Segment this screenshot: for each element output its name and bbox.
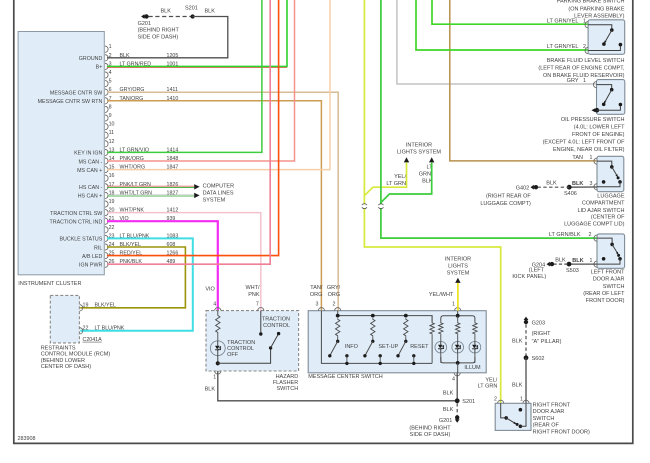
svg-text:4: 4 [213, 302, 216, 308]
wire RED/YEL pin25 [107, 0, 279, 256]
svg-text:G402: G402 [516, 185, 529, 191]
svg-text:G201: G201 [138, 21, 151, 27]
brake fluid level switch box [588, 20, 625, 55]
RCM pin 19 bracket [80, 305, 83, 311]
wire GRY/ORG pin6 [107, 92, 338, 311]
arrow computer data lines 2 [194, 193, 199, 198]
svg-text:3: 3 [590, 181, 593, 187]
svg-text:LUGGAGE COMPT LID): LUGGAGE COMPT LID) [564, 222, 625, 228]
svg-text:BLK: BLK [512, 382, 523, 388]
RFD blade contact dot [519, 425, 523, 429]
MCS resistor INFO [336, 318, 340, 337]
svg-text:MESSAGE CNTR SW RTN: MESSAGE CNTR SW RTN [38, 99, 103, 105]
svg-text:MS CAN +: MS CAN + [77, 168, 102, 174]
svg-text:1: 1 [213, 375, 216, 381]
arrow interior lights 3 [455, 278, 460, 283]
svg-text:(BEHIND RIGHT: (BEHIND RIGHT [138, 28, 180, 34]
svg-text:LEFT FRONT: LEFT FRONT [591, 270, 625, 276]
svg-text:CONTROL MODULE (RCM): CONTROL MODULE (RCM) [41, 352, 111, 358]
junction dot traction [216, 361, 220, 365]
wire LT GRN/BLK branch [381, 162, 432, 202]
svg-text:1: 1 [590, 155, 593, 161]
connector hop green [378, 204, 383, 208]
svg-text:BLK: BLK [572, 258, 583, 264]
MCS illum bottom junction [456, 361, 460, 365]
svg-text:(EXCEPT 4.0L: LEFT FRONT OF: (EXCEPT 4.0L: LEFT FRONT OF [543, 140, 626, 146]
svg-text:MS CAN -: MS CAN - [78, 159, 102, 165]
svg-text:MESSAGE CNTR SW: MESSAGE CNTR SW [50, 91, 102, 97]
traction LED lead to junction [217, 356, 219, 364]
svg-text:SIDE OF DASH): SIDE OF DASH) [138, 34, 179, 40]
svg-text:RESET: RESET [410, 344, 429, 350]
svg-text:MESSAGE CENTER SWITCH: MESSAGE CENTER SWITCH [308, 374, 383, 380]
LFD pin2 contact [597, 238, 612, 244]
MCS illum LED x457.7 [452, 341, 464, 353]
right front door switch box [495, 403, 531, 430]
wire GRY [397, 0, 597, 84]
MCS SET-UP lead [372, 337, 374, 342]
svg-text:SWITCH: SWITCH [276, 386, 298, 392]
svg-text:CENTER OF DASH): CENTER OF DASH) [41, 364, 92, 370]
svg-text:12: 12 [109, 139, 115, 145]
svg-text:5: 5 [109, 79, 112, 85]
splice S201 bottom [455, 398, 460, 403]
wire PNK/LT GRN pin17 [107, 185, 194, 187]
svg-text:1: 1 [583, 78, 586, 84]
svg-text:HS CAN -: HS CAN - [79, 185, 102, 191]
svg-text:HS CAN +: HS CAN + [78, 194, 103, 200]
LUG blade contact dot [618, 180, 622, 184]
MCS pin 3 bracket [318, 308, 324, 311]
MCS pin 2 bracket [335, 308, 341, 311]
BFS blade [604, 30, 612, 43]
MCS illum lead x474.9 [474, 335, 476, 342]
wire PNK/BLK pin26 [107, 0, 270, 264]
wire LT BLU/PNK pin23 [80, 238, 193, 330]
MCS INFO lead [337, 337, 339, 342]
svg-text:RIL: RIL [94, 245, 102, 251]
splice S201 (top) [191, 14, 195, 18]
BFS pin 2 bracket [585, 47, 588, 53]
ground G203 [524, 320, 528, 324]
BFS pin1 contact [588, 25, 612, 30]
svg-text:VIO: VIO [205, 286, 215, 292]
RFD pin2 contact [501, 403, 507, 418]
svg-text:TRACTION CTRL IND: TRACTION CTRL IND [50, 220, 103, 226]
svg-text:GRY/: GRY/ [327, 285, 341, 291]
svg-text:GROUND: GROUND [79, 56, 103, 62]
MCS illum resistor x474.9 [473, 322, 477, 335]
pin 7 bracket [258, 308, 264, 311]
svg-text:BLK: BLK [546, 180, 557, 186]
splice S406 [567, 185, 572, 190]
MCS RESET top contact dot [404, 340, 407, 343]
LUG pin1 contact [597, 161, 612, 167]
wire LT GRN/RED pin3 [107, 0, 287, 66]
svg-text:YEL/: YEL/ [394, 174, 406, 180]
MCS pin4 lead [457, 363, 459, 373]
svg-text:SWITCH: SWITCH [533, 416, 555, 422]
LFD floating contact [602, 257, 606, 261]
wire LT GRN/YEL pin1 [432, 0, 588, 24]
svg-text:1: 1 [452, 302, 455, 308]
svg-text:BLK: BLK [443, 391, 454, 397]
MCS top bus junction u3 [404, 314, 408, 318]
splice S503 [567, 262, 572, 267]
svg-text:LT GRN: LT GRN [386, 181, 406, 187]
OPS case ground [595, 108, 600, 113]
svg-text:BUCKLE STATUS: BUCKLE STATUS [60, 237, 103, 243]
RFD pin1 contact [520, 403, 526, 426]
svg-text:22: 22 [109, 225, 115, 231]
svg-text:283908: 283908 [18, 436, 36, 442]
svg-text:BLK: BLK [555, 257, 566, 263]
svg-text:SET-UP: SET-UP [378, 344, 398, 350]
svg-text:22: 22 [83, 326, 89, 332]
svg-text:ORG: ORG [328, 292, 341, 298]
svg-text:S503: S503 [566, 268, 579, 274]
wire PNK/ORG pin14 [107, 0, 295, 161]
wire LT GRN/YEL pin2 [416, 0, 588, 50]
hazard flasher switch box [206, 311, 299, 371]
MCS SET-UP blade tip dot [363, 354, 366, 357]
svg-text:INTERIOR: INTERIOR [445, 256, 471, 262]
svg-text:(BEHIND LOWER: (BEHIND LOWER [41, 358, 85, 364]
MCS illum resistor x440.8 [439, 322, 443, 335]
MCS illum lead x440.8 [440, 335, 442, 342]
MCS illum lead x457.7 [457, 335, 459, 342]
svg-text:INSTRUMENT CLUSTER: INSTRUMENT CLUSTER [18, 281, 81, 287]
arrow computer data lines 1 [194, 184, 199, 189]
wire BLK dashed G402 to S406 [538, 186, 570, 188]
wire WHT/ORG pin15 [107, 0, 330, 170]
svg-text:LID AJAR SWITCH: LID AJAR SWITCH [577, 208, 624, 214]
svg-text:PNK/LT GRN: PNK/LT GRN [120, 182, 151, 188]
LFD blade contact dot [618, 257, 622, 261]
svg-text:DOOR AJAR: DOOR AJAR [533, 409, 565, 415]
svg-text:"A" PILLAR): "A" PILLAR) [532, 339, 562, 345]
svg-text:2: 2 [588, 232, 591, 238]
wire YEL/LT GRN [364, 0, 500, 403]
MCS SET-UP right contact [379, 354, 382, 357]
LUG pin 1 bracket [594, 158, 597, 164]
svg-text:RESTRAINTS: RESTRAINTS [41, 346, 76, 352]
svg-text:19: 19 [109, 199, 115, 205]
svg-text:LT GRN/YEL: LT GRN/YEL [547, 18, 579, 24]
wire BLK S602 to RFD pin1 [525, 358, 527, 404]
svg-text:LIGHTS: LIGHTS [448, 263, 468, 269]
svg-text:IGN PWR: IGN PWR [79, 263, 102, 269]
wire LT GRN/BLK [381, 0, 597, 238]
MCS INFO blade tip dot [328, 354, 331, 357]
svg-text:S201: S201 [462, 399, 475, 405]
wire BLK MCS pin4 to S201 [456, 373, 458, 401]
svg-text:BLK: BLK [572, 181, 583, 187]
connector hop chartreuse [362, 204, 367, 208]
svg-text:(ON PARKING BRAKE: (ON PARKING BRAKE [568, 6, 624, 12]
MCS pin3 lead to bottom bus [321, 311, 432, 364]
message center switch box [308, 311, 486, 373]
wire LT GRN/RED red stripe [107, 67, 287, 69]
svg-text:BLK: BLK [161, 9, 172, 15]
svg-text:LUGGAGE COMPT): LUGGAGE COMPT) [480, 201, 531, 207]
svg-text:19: 19 [83, 303, 89, 309]
wire BLK dashed G204 to S503 [554, 263, 570, 265]
svg-text:4: 4 [109, 70, 112, 76]
BFS pin2 contact [588, 45, 620, 51]
svg-text:BRAKE FLUID LEVEL SWITCH: BRAKE FLUID LEVEL SWITCH [547, 58, 625, 64]
svg-text:INTERIOR: INTERIOR [406, 143, 432, 149]
MCS SET-UP top contact dot [371, 340, 374, 343]
ground G201 (top) [144, 14, 148, 18]
svg-text:TAN/: TAN/ [310, 285, 323, 291]
svg-text:WHT/: WHT/ [245, 285, 260, 291]
RFD floating contact [519, 408, 523, 412]
svg-text:RIGHT FRONT: RIGHT FRONT [533, 402, 571, 408]
svg-text:1826: 1826 [167, 182, 179, 188]
LUG pin 3 bracket [594, 184, 597, 190]
wire TAN/ORG pin7 [107, 101, 321, 311]
svg-text:18: 18 [109, 190, 115, 196]
svg-text:8: 8 [109, 104, 112, 110]
svg-text:YEL/: YEL/ [485, 377, 497, 383]
wire BLK pin2 [107, 17, 228, 58]
wire BLK hazard pin1 to S201 [218, 371, 455, 401]
svg-text:SWITCH: SWITCH [603, 284, 625, 290]
svg-text:3: 3 [315, 302, 318, 308]
wire BLK dashed S201 to G201 [456, 403, 458, 415]
svg-text:BLK: BLK [205, 9, 216, 15]
svg-text:S201: S201 [185, 6, 198, 12]
BFS pin 1 bracket [585, 22, 588, 28]
MCS resistor RESET [404, 318, 408, 337]
svg-text:17: 17 [109, 182, 115, 188]
svg-text:(LEFT REAR OF ENGINE COMPT,: (LEFT REAR OF ENGINE COMPT, [538, 66, 625, 72]
LFD pin 1 bracket [594, 261, 597, 267]
LFD pin 2 bracket [594, 235, 597, 241]
svg-text:S406: S406 [564, 191, 577, 197]
oil pressure switch box [597, 80, 625, 115]
MCS illum bottom bus [441, 357, 475, 363]
MCS illum junction [456, 314, 460, 318]
LUG pin3 contact [597, 182, 620, 187]
LFD blade [612, 244, 618, 254]
blade dot bottom [269, 346, 272, 349]
MCS RESET blade tip dot [396, 354, 399, 357]
svg-text:BLK/YEL: BLK/YEL [95, 303, 117, 309]
svg-text:ILLUM: ILLUM [464, 365, 481, 371]
wire VIO pin21 [107, 221, 218, 311]
svg-text:OFF: OFF [227, 352, 239, 358]
MCS illum top bus [441, 316, 475, 322]
svg-text:LIGHTS SYSTEM: LIGHTS SYSTEM [397, 150, 441, 156]
wire BLK S406 to pin3 [569, 186, 597, 188]
pin7 contact dot [259, 332, 262, 335]
RFD pin 2 bracket [498, 400, 504, 403]
left front door switch box [597, 234, 625, 268]
svg-text:(RIGHT: (RIGHT [532, 331, 552, 337]
MCS illum center lead [457, 316, 459, 322]
wire YEL/WHT [457, 283, 459, 311]
svg-text:SYSTEM: SYSTEM [203, 197, 226, 203]
svg-text:LUGGAGE: LUGGAGE [597, 194, 625, 200]
MCS illum LED x474.9 [469, 341, 481, 353]
wire BLK dashed G203 to S602 [525, 324, 527, 358]
svg-text:KEY IN IGN: KEY IN IGN [74, 151, 102, 157]
ground G204 [550, 262, 554, 266]
pin 1 bracket bottom [215, 371, 221, 374]
svg-text:(RIGHT REAR OF: (RIGHT REAR OF [486, 194, 531, 200]
RCM pin 22 bracket [80, 328, 83, 334]
svg-text:PARKING BRAKE SWITCH: PARKING BRAKE SWITCH [557, 0, 625, 5]
pin 4 bracket [215, 308, 221, 311]
svg-text:FRONT DOOR): FRONT DOOR) [586, 298, 625, 304]
svg-text:1827: 1827 [167, 190, 179, 196]
MCS RESET right contact [412, 354, 415, 357]
LUG floating contact [602, 180, 606, 184]
svg-text:ENGINE, NEAR OIL FILTER): ENGINE, NEAR OIL FILTER) [553, 147, 625, 153]
svg-text:(BEHIND RIGHT: (BEHIND RIGHT [409, 426, 451, 432]
MCS illum pin1 lead [457, 311, 459, 316]
svg-text:7: 7 [256, 302, 259, 308]
MCS illum LED x440.8 [435, 341, 447, 353]
arrow interior lights 1 [404, 157, 409, 162]
svg-text:1: 1 [520, 396, 523, 402]
MCS illum resistor x457.7 [456, 322, 460, 335]
LUG blade [612, 167, 618, 177]
MCS INFO top contact dot [336, 340, 339, 343]
svg-text:FRONT OF ENGINE): FRONT OF ENGINE) [572, 132, 625, 138]
svg-text:LT GRN/BLK: LT GRN/BLK [549, 232, 581, 238]
pin7 contact lead [260, 311, 262, 334]
MCS pin 4 bracket [454, 373, 460, 376]
svg-text:C2041A: C2041A [83, 337, 103, 343]
svg-text:RIGHT FRONT DOOR): RIGHT FRONT DOOR) [533, 430, 590, 436]
svg-text:9: 9 [109, 113, 112, 119]
instrument cluster pin brackets [105, 46, 108, 52]
instrument cluster box [18, 32, 104, 275]
svg-text:YEL/WHT: YEL/WHT [429, 292, 454, 298]
svg-text:BLK: BLK [205, 387, 216, 393]
svg-text:WHT/LT GRN: WHT/LT GRN [120, 190, 153, 196]
svg-text:G203: G203 [532, 320, 545, 326]
svg-text:GRY: GRY [567, 78, 579, 84]
svg-text:(REAR OF: (REAR OF [533, 423, 560, 429]
wire BLK/YEL pin24 [80, 247, 185, 308]
svg-text:1: 1 [109, 44, 112, 50]
wire WHT/PNK pin20 [107, 213, 261, 312]
OPS pin1 contact [597, 85, 612, 90]
blade dot top [277, 332, 280, 335]
svg-text:(LEFT: (LEFT [529, 268, 545, 274]
svg-text:TRACTION: TRACTION [262, 317, 290, 323]
svg-text:TRACTION CTRL SW: TRACTION CTRL SW [50, 211, 102, 217]
MCS SET-UP blade [365, 341, 373, 356]
luggage switch box [597, 156, 624, 191]
svg-text:LEVER ASSEMBLY): LEVER ASSEMBLY) [574, 14, 625, 20]
svg-text:S602: S602 [532, 356, 545, 362]
wire to switch blade [218, 348, 271, 363]
svg-text:16: 16 [109, 173, 115, 179]
wire YEL/LT GRN branch [364, 162, 406, 195]
svg-text:INFO: INFO [345, 344, 359, 350]
svg-text:11: 11 [109, 130, 115, 136]
svg-text:DOOR AJAR: DOOR AJAR [593, 277, 625, 283]
svg-text:SYSTEM: SYSTEM [447, 270, 470, 276]
MCS RESET lead [405, 337, 407, 342]
MCS pin 1 bracket [455, 308, 461, 311]
wire WHT/LT GRN pin18 [107, 194, 194, 196]
RFD blade [506, 418, 516, 424]
traction resistor R1 [217, 311, 219, 315]
svg-text:B+: B+ [96, 65, 103, 71]
ground G201 bottom [455, 415, 459, 419]
svg-text:BLK: BLK [443, 407, 454, 413]
MCS INFO right contact [345, 354, 348, 357]
ground G402 [534, 185, 538, 189]
OPS ground link [597, 105, 621, 111]
OPS blade [604, 90, 612, 104]
svg-text:KICK PANEL): KICK PANEL) [512, 274, 546, 280]
svg-text:(4.0L: LOWER LEFT: (4.0L: LOWER LEFT [574, 125, 625, 131]
LFD pin1 contact [597, 259, 620, 264]
svg-text:PNK: PNK [248, 292, 260, 298]
svg-text:DATA LINES: DATA LINES [203, 190, 234, 196]
svg-text:LT GRN/YEL: LT GRN/YEL [547, 44, 579, 50]
svg-text:1: 1 [590, 258, 593, 264]
svg-text:ORG: ORG [310, 292, 323, 298]
svg-text:LT BLU/PNK: LT BLU/PNK [95, 326, 125, 332]
arrow interior lights 2 [429, 157, 434, 162]
MCS top bus junction u2 [371, 314, 375, 318]
svg-text:(REAR OF LEFT: (REAR OF LEFT [583, 291, 625, 297]
OPS pin 1 bracket [593, 82, 596, 88]
svg-text:G201: G201 [439, 418, 452, 424]
svg-text:COMPARTMENT: COMPARTMENT [582, 201, 625, 207]
svg-text:CONTROL: CONTROL [263, 323, 290, 329]
MCS RESET blade [398, 341, 406, 356]
traction LED [210, 341, 225, 356]
MCS resistor SET-UP [371, 318, 375, 337]
svg-text:A/B LED: A/B LED [82, 254, 102, 260]
svg-text:4: 4 [452, 377, 455, 383]
svg-text:10: 10 [109, 122, 115, 128]
wire LT GRN/VIO pin13 [107, 0, 262, 152]
MCS top bus junction pin2 [336, 314, 340, 318]
svg-text:OIL PRESSURE SWITCH: OIL PRESSURE SWITCH [561, 117, 625, 123]
wire BLK dashed G201 to S201 [149, 16, 193, 18]
svg-text:TAN: TAN [572, 155, 583, 161]
svg-text:LT GRN: LT GRN [478, 384, 498, 390]
MCS INFO blade [330, 341, 338, 356]
svg-text:2: 2 [494, 396, 497, 402]
switch blade traction [271, 334, 279, 348]
wire BLK S503 to pin1 [569, 263, 597, 265]
svg-text:SIDE OF DASH): SIDE OF DASH) [410, 432, 451, 438]
splice S602 [524, 355, 529, 360]
svg-text:2: 2 [332, 302, 335, 308]
MCS resistor R4 [431, 316, 433, 322]
MCS top bus [338, 316, 432, 322]
svg-text:GRN/: GRN/ [419, 171, 433, 177]
svg-text:COMPUTER: COMPUTER [203, 183, 235, 189]
RFD pin 1 bracket [523, 400, 529, 403]
MCS pin2 lead [337, 311, 339, 316]
svg-text:BLK: BLK [512, 339, 523, 345]
svg-text:(CENTER OF: (CENTER OF [591, 214, 625, 220]
wire TAN [450, 0, 597, 161]
restraints control module box [50, 295, 79, 343]
